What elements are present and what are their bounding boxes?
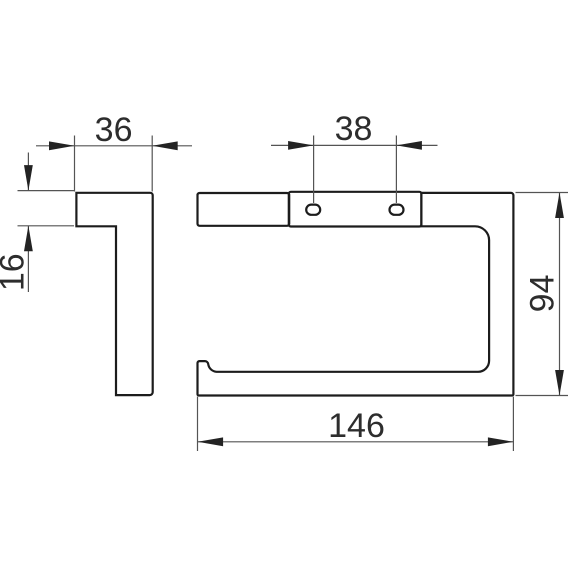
front view left top-bar section — [198, 193, 290, 226]
dim 16 arrowhead bottom (points up) — [24, 226, 33, 252]
dim 146 arrowhead right (points right) — [488, 437, 514, 446]
dim 94 arrowhead bottom (points down) — [555, 370, 564, 396]
dim 16 dimension line upper — [27, 153, 29, 191]
dim 36 arrowhead right (points left at right ext line) — [152, 141, 178, 150]
dim 16 arrowhead top (points down) — [24, 165, 33, 191]
dim 38 extension line right — [395, 136, 397, 204]
svg-text:36: 36 — [95, 111, 133, 149]
svg-text:38: 38 — [335, 110, 373, 148]
dim 16 extension line top — [18, 190, 75, 192]
dim 36 extension line right — [151, 136, 153, 192]
dim 94 arrowhead top (points up) — [555, 193, 564, 219]
dim 36 extension line left — [74, 136, 76, 192]
front view mounting plate (middle section) — [289, 192, 422, 227]
screw hole left — [306, 205, 320, 215]
side view outline (left, L-shaped profile) — [76, 193, 152, 395]
dim 16 extension line bottom — [18, 225, 75, 227]
dim 94 extension line bottom — [516, 395, 569, 397]
dim 146 extension line right — [512, 397, 514, 451]
svg-text:16: 16 — [0, 253, 32, 291]
dim 146 arrowhead left (points left) — [198, 437, 224, 446]
svg-text:94: 94 — [524, 274, 562, 312]
dim 38 dimension line — [271, 144, 438, 146]
front view main body (right section, right arm, bottom bar, lip) — [198, 193, 514, 396]
dim 38 arrowhead right (points left) — [396, 141, 422, 150]
dim 146 extension line left — [197, 397, 199, 451]
svg-text:146: 146 — [328, 407, 385, 445]
dim 94 extension line top — [516, 192, 569, 194]
dim 94 dimension line — [559, 193, 561, 396]
dim 38 arrowhead left (points right) — [288, 141, 314, 150]
dim 16 dimension line lower — [27, 226, 29, 292]
screw hole right — [390, 205, 404, 215]
dim 36 dimension line — [36, 145, 192, 147]
dim 36 arrowhead left (points right at left ext line) — [49, 141, 75, 150]
dim 38 extension line left — [313, 136, 315, 204]
dim 146 dimension line — [198, 441, 514, 443]
